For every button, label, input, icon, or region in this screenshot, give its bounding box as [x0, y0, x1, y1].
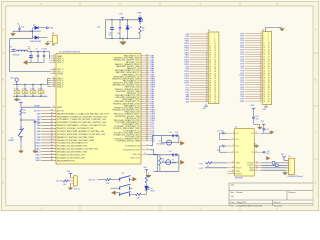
svg-text:33: 33 — [209, 71, 211, 73]
U1 left pin (DA7) — [37, 133, 106, 136]
svg-text:14: 14 — [268, 47, 270, 49]
svg-text:C6 104: C6 104 — [22, 88, 27, 90]
svg-text:PC6/SPI1_MISO/TIM8_BKIN/ADC12_: PC6/SPI1_MISO/TIM8_BKIN/ADC12_IN6/TIM3_C… — [57, 130, 105, 133]
JP1 pin 3 (PE10) — [185, 37, 216, 40]
U1 right pin 37 (PC4) — [124, 129, 156, 132]
JP1 pin 9 (PB10) — [185, 51, 217, 54]
U2 left pin 1 (C1+) — [227, 132, 239, 135]
resistor R3 1M — [159, 155, 165, 172]
JP2 pin 8 (PE7) — [240, 49, 269, 52]
svg-text:DA12: DA12 — [36, 148, 42, 151]
U1 left pin (DA15) — [36, 156, 86, 159]
JP2 pin 26 (PG6) — [240, 90, 269, 93]
svg-text:39: 39 — [209, 78, 211, 80]
svg-text:19: 19 — [209, 55, 211, 57]
svg-text:25: 25 — [206, 89, 208, 91]
svg-text:8: 8 — [256, 169, 257, 171]
wire decoupling top rail — [13, 84, 47, 85]
svg-text:16: 16 — [53, 72, 55, 74]
svg-text:55: 55 — [263, 96, 265, 98]
svg-text:40: 40 — [268, 77, 270, 79]
svg-text:17: 17 — [260, 69, 262, 71]
svg-text:25: 25 — [260, 88, 262, 90]
svg-text:58: 58 — [268, 98, 270, 100]
U1 left power pin (VSS_1) — [50, 85, 64, 88]
offsheet arrow at C20 — [266, 152, 270, 160]
svg-text:43: 43 — [51, 150, 53, 152]
svg-text:16: 16 — [206, 68, 208, 70]
svg-text:RESET: RESET — [8, 140, 15, 142]
ground crystal circuit — [146, 173, 151, 178]
svg-text:27: 27 — [263, 63, 265, 65]
JP2 pin 1 (PE0) — [240, 32, 268, 35]
svg-text:36: 36 — [51, 130, 53, 132]
svg-text:V+: V+ — [251, 133, 253, 135]
svg-text:3V3: 3V3 — [186, 101, 189, 103]
U2 left pin 12 (R1OUT) — [227, 167, 242, 170]
capacitor C2 — [35, 49, 39, 63]
svg-text:BOOT0: BOOT0 — [89, 179, 95, 181]
U1 left power pin (VBAT) — [50, 55, 63, 58]
svg-text:46: 46 — [268, 84, 270, 86]
svg-text:32: 32 — [214, 69, 216, 71]
JP2 designator — [262, 30, 265, 32]
svg-text:C12: C12 — [169, 132, 172, 134]
svg-text:10: 10 — [232, 170, 234, 172]
svg-text:60: 60 — [214, 101, 216, 103]
svg-text:24: 24 — [268, 59, 270, 61]
ground CN3 — [283, 170, 288, 175]
U1 left power pin (VSS_5) — [50, 77, 64, 80]
svg-text:24: 24 — [260, 86, 262, 88]
svg-text:21: 21 — [53, 85, 55, 87]
svg-text:Sheet of: Sheet of — [274, 201, 281, 204]
U1 right pin 21 (PB4) — [115, 96, 155, 99]
svg-text:41: 41 — [263, 80, 265, 82]
U1 right pin 17 (PB0) — [115, 88, 155, 91]
svg-text:C1-: C1- — [236, 139, 239, 141]
svg-text:21: 21 — [209, 57, 211, 59]
U1 right pin 23 (PB6) — [114, 100, 155, 103]
svg-text:104: 104 — [40, 92, 43, 94]
connector CN3 body — [289, 158, 295, 174]
svg-text:DA15: DA15 — [36, 156, 42, 159]
JP2 pin 10 (PF1) — [241, 53, 270, 56]
JP1 pin 4 (PE11) — [185, 40, 216, 43]
svg-text:22: 22 — [268, 57, 270, 59]
svg-text:36: 36 — [214, 73, 216, 75]
JP2 pin 18 (PF9) — [241, 72, 270, 75]
svg-text:13: 13 — [209, 48, 211, 50]
svg-text:3V3: 3V3 — [18, 100, 21, 102]
svg-text:40: 40 — [214, 78, 216, 80]
svg-text:14: 14 — [206, 63, 208, 65]
svg-text:19: 19 — [260, 74, 262, 76]
JP1 pin 1 (PE8) — [186, 33, 216, 36]
svg-text:35: 35 — [263, 73, 265, 75]
svg-text:58: 58 — [214, 99, 216, 101]
U1 right pin 32 (PB15) — [114, 119, 156, 122]
svg-text:31: 31 — [51, 115, 53, 117]
svg-text:2: 2 — [256, 132, 257, 134]
svg-text:9: 9 — [147, 148, 148, 150]
svg-text:3V3: 3V3 — [67, 171, 70, 173]
wire input node — [13, 31, 33, 39]
svg-text:60: 60 — [268, 101, 270, 103]
svg-text:File:: File: — [230, 206, 234, 208]
svg-text:PB9/ADC12_IN9/TIM3_CH4/TIM8_CH: PB9/ADC12_IN9/TIM3_CH4/TIM8_CH3N — [57, 139, 94, 142]
U1 right pin 25 (PB8) — [124, 104, 155, 107]
svg-text:22: 22 — [206, 82, 208, 84]
offsheet arrow S3 left — [111, 191, 119, 195]
svg-text:BOOT0: BOOT0 — [57, 111, 65, 113]
U1 right pin 31 (PB14) — [126, 117, 157, 120]
capacitor C9 104 reset — [34, 120, 40, 150]
U1 left pin (BOOT0) — [34, 110, 65, 113]
svg-text:D:\ELADR\ICKAMP-STM32.ddb: D:\ELADR\ICKAMP-STM32.ddb — [236, 205, 262, 208]
U2 right pin 13 (R1IN) — [249, 167, 261, 170]
svg-text:8: 8 — [268, 40, 269, 42]
svg-text:PB1/USART2_RTS/ADC123_IN1/TIM5: PB1/USART2_RTS/ADC123_IN1/TIM5_CH2/TIM2_… — [57, 115, 108, 118]
svg-text:24: 24 — [206, 86, 208, 88]
svg-text:3V3: 3V3 — [261, 121, 264, 123]
U1 right pin 6 (PA5) — [116, 65, 155, 68]
svg-text:12: 12 — [214, 45, 216, 47]
U1 right pin 34 (PC1) — [122, 123, 155, 126]
CN3 designator — [288, 156, 290, 158]
U2 left pin 10 (T2IN) — [227, 170, 240, 173]
U1 right pin 2 (PA1) — [114, 57, 155, 60]
capacitor C1 — [17, 23, 24, 31]
svg-text:C8 104: C8 104 — [38, 88, 43, 90]
U1 left pin (DA10) — [36, 142, 89, 145]
svg-text:34: 34 — [51, 124, 53, 126]
svg-text:14: 14 — [260, 62, 262, 64]
svg-text:3V3: 3V3 — [143, 167, 146, 169]
svg-text:C18: C18 — [217, 150, 220, 152]
ground C16 — [251, 144, 259, 148]
svg-text:32.768KHz: 32.768KHz — [157, 144, 166, 146]
svg-text:104: 104 — [16, 92, 19, 94]
svg-text:18: 18 — [268, 52, 270, 54]
JP2 pin 20 (PG0) — [240, 76, 269, 79]
JP1 pin 30 (3V3) — [186, 100, 216, 103]
svg-text:+3V3: +3V3 — [202, 108, 206, 110]
svg-text:PC15/OSC32_OUT: PC15/OSC32_OUT — [123, 150, 140, 152]
svg-text:28: 28 — [268, 63, 270, 65]
svg-text:57: 57 — [209, 99, 211, 101]
U1 right pin 9 (PA8) — [116, 71, 155, 74]
svg-text:30: 30 — [214, 66, 216, 68]
wire VDDA to U1 pins — [48, 52, 51, 63]
U2 right pin 2 (V+) — [251, 132, 261, 135]
connector J3 boot select — [70, 176, 79, 191]
U1 left pin (DA0) — [37, 112, 109, 115]
svg-text:P1: P1 — [288, 156, 290, 158]
svg-text:13: 13 — [53, 61, 55, 63]
wire LED circuit loop — [106, 19, 141, 39]
power port at J3 pin1 — [67, 171, 72, 178]
JP1 pin 2 (PE9) — [186, 35, 216, 38]
svg-text:32: 32 — [268, 68, 270, 70]
U1 right pin (PC15-OSC32_OUT) — [123, 148, 150, 151]
JP1 pin 19 (PD12) — [184, 75, 216, 78]
svg-text:104: 104 — [117, 33, 120, 35]
svg-text:49: 49 — [209, 90, 211, 92]
microcontroller U1 STM32F103VET6 body — [56, 54, 141, 165]
svg-text:PD15/ADC12_IN15/TIM4_CH4: PD15/ADC12_IN15/TIM4_CH4 — [57, 156, 85, 159]
JP2 pin 14 (PF5) — [241, 62, 270, 65]
svg-text:T1IN: T1IN — [236, 163, 241, 165]
JP1 pin 17 (PD10) — [184, 70, 216, 73]
JP1 pin 23 (PC6) — [186, 84, 217, 87]
U1 left pin (DA3) — [37, 121, 107, 124]
svg-text:C2+: C2+ — [236, 146, 239, 148]
wire 3V3 to U1 VDD pins — [47, 78, 50, 86]
resistor R6 10K pulldown — [136, 193, 141, 199]
ground near V+ cap — [264, 131, 274, 134]
svg-text:104: 104 — [37, 123, 40, 125]
svg-text:RX2: RX2 — [199, 168, 203, 170]
U1 left pin (DA8) — [37, 136, 95, 139]
svg-text:C: C — [315, 132, 317, 135]
svg-text:5-Aug-2009: 5-Aug-2009 — [236, 201, 245, 204]
JP2 pin 2 (PE1) — [240, 35, 268, 38]
U1 right pin 11 (PA10) — [113, 75, 156, 78]
svg-text:44: 44 — [214, 83, 216, 85]
CN3 pin 5 — [285, 170, 290, 172]
JP2 pin 24 (PG4) — [240, 86, 269, 89]
JP1 pin 24 (PC7) — [186, 86, 217, 89]
svg-text:OSC_IN: OSC_IN — [133, 154, 141, 156]
U1 left power pin (VSS_2) — [50, 83, 64, 86]
svg-text:26: 26 — [260, 90, 262, 92]
svg-text:26: 26 — [214, 62, 216, 64]
svg-text:11: 11 — [206, 56, 208, 58]
svg-text:20: 20 — [268, 54, 270, 56]
svg-text:56: 56 — [214, 97, 216, 99]
svg-text:5: 5 — [233, 151, 234, 153]
svg-text:21: 21 — [260, 79, 262, 81]
U1 right pin 33 (PC0) — [115, 121, 155, 124]
power port +3V3 below JP1 — [190, 102, 208, 111]
net label +5V — [97, 27, 101, 29]
svg-text:8: 8 — [147, 144, 148, 146]
svg-text:42: 42 — [214, 80, 216, 82]
CN3 label text — [287, 176, 303, 178]
capacitor C14 on Y1 — [169, 151, 174, 156]
svg-text:52: 52 — [214, 92, 216, 94]
svg-text:38: 38 — [268, 75, 270, 77]
svg-text:26: 26 — [268, 61, 270, 63]
svg-text:16: 16 — [214, 50, 216, 52]
svg-text:56: 56 — [268, 96, 270, 98]
svg-text:D: D — [315, 182, 317, 185]
wire VDDA top rail — [27, 51, 49, 52]
svg-text:+3V3: +3V3 — [10, 77, 14, 79]
svg-text:54: 54 — [268, 94, 270, 96]
svg-text:10: 10 — [260, 53, 262, 55]
svg-text:38: 38 — [51, 136, 53, 138]
svg-text:+3V3: +3V3 — [262, 109, 266, 111]
U1 left pin (DA2) — [37, 118, 107, 121]
U1 right pin 14 (PA13) — [113, 81, 156, 84]
svg-text:10: 10 — [268, 43, 270, 45]
offsheet arrow OSC32 — [180, 141, 184, 145]
svg-text:C3 104: C3 104 — [41, 49, 47, 51]
svg-text:C1+: C1+ — [236, 133, 239, 135]
CN3 pin 3 — [285, 165, 290, 167]
U1 right pin 8 (PA7) — [115, 69, 155, 72]
svg-text:4: 4 — [233, 145, 234, 147]
title block text — [230, 184, 295, 208]
U1 right pin 38 (PC5) — [114, 131, 155, 134]
power port +3V3 decoupling — [10, 77, 19, 84]
svg-text:21: 21 — [263, 57, 265, 59]
net label RX2 wire — [199, 168, 227, 170]
svg-text:46: 46 — [51, 159, 53, 161]
JP1 pin 5 (PE12) — [185, 42, 217, 45]
wire from JP2 top to ground — [266, 28, 283, 32]
svg-text:PC9/FSMC_D5/I2C1_SDA: PC9/FSMC_D5/I2C1_SDA — [116, 140, 140, 143]
U1 left power pin (VDDA) — [50, 72, 63, 75]
U1 right pin 12 (PA11) — [112, 77, 156, 80]
U1 left pin (DA1) — [37, 115, 108, 118]
resistor R5 10K — [98, 178, 120, 185]
pushbutton S1 RESET — [8, 120, 23, 150]
svg-text:4: 4 — [268, 36, 269, 38]
svg-text:11: 11 — [209, 45, 211, 47]
svg-text:23: 23 — [260, 83, 262, 85]
U1 left pin (DA6) — [37, 130, 106, 133]
svg-text:C1: C1 — [17, 23, 19, 25]
svg-text:FB 600R: FB 600R — [13, 55, 21, 57]
svg-text:R1OUT: R1OUT — [236, 168, 243, 170]
svg-text:12: 12 — [206, 58, 208, 60]
U1 left pin (DA13) — [36, 150, 88, 153]
U1 left pin (DA12) — [36, 147, 99, 150]
svg-text:C13: C13 — [175, 132, 178, 134]
battery connector BT1 — [47, 33, 57, 46]
svg-text:37: 37 — [263, 75, 265, 77]
JP1 pin 29 (GND) — [185, 98, 216, 101]
svg-text:PB5/SPI1_SCK/DAC_OUT2/ADC12_IN: PB5/SPI1_SCK/DAC_OUT2/ADC12_IN5 — [57, 127, 94, 130]
ground C9 — [33, 150, 38, 153]
svg-text:13: 13 — [256, 167, 258, 169]
svg-text:RESET: RESET — [34, 105, 41, 107]
svg-text:11: 11 — [263, 45, 265, 47]
U1 left pin (DA11) — [36, 145, 88, 148]
svg-text:22: 22 — [260, 81, 262, 83]
JP1 pin 10 (PB11) — [185, 54, 217, 57]
svg-text:22: 22 — [214, 57, 216, 59]
svg-text:31: 31 — [209, 69, 211, 71]
U1 right pin (OSC_OUT) — [130, 158, 140, 160]
svg-text:10: 10 — [214, 43, 216, 45]
U1 right pin 36 (PC3) — [113, 127, 155, 130]
svg-text:27: 27 — [206, 93, 208, 95]
svg-text:6: 6 — [268, 38, 269, 40]
svg-text:104: 104 — [24, 92, 27, 94]
U1 right pin 42 (PC9) — [116, 140, 155, 143]
svg-text:14: 14 — [53, 106, 55, 108]
U2 left pin 9 (R2OUT) — [227, 173, 242, 176]
net label BOOT0 key — [89, 179, 95, 181]
JP1 pin 28 (PA9) — [186, 96, 216, 99]
svg-text:1: 1 — [233, 132, 234, 134]
JP1 pin 8 (PE15) — [185, 49, 217, 52]
JP2 pin 30 (GND) — [240, 100, 270, 103]
pushbutton S2 KEY — [119, 173, 132, 181]
svg-text:50: 50 — [268, 89, 270, 91]
svg-text:12: 12 — [144, 153, 146, 155]
U1 right pin 39 (PC6) — [113, 133, 155, 136]
svg-text:25: 25 — [263, 61, 265, 63]
JP2 pin 6 (PE5) — [240, 44, 269, 47]
svg-text:DA14: DA14 — [36, 153, 42, 156]
U1 right pin 10 (PA9) — [122, 73, 154, 76]
svg-text:51: 51 — [263, 91, 265, 93]
U1 right pin 15 (PA14) — [112, 84, 156, 87]
svg-text:BOOT0: BOOT0 — [56, 181, 62, 183]
JP1 pin 26 (PC9) — [186, 91, 217, 94]
U2 designator — [235, 127, 238, 129]
svg-text:Drawn By:: Drawn By: — [274, 206, 283, 208]
U2 left pin 3 (C1-) — [227, 138, 239, 141]
svg-text:PA12/ADC123_IN12/USART3_CK/TIM: PA12/ADC123_IN12/USART3_CK/TIM8_CH4 — [57, 148, 99, 151]
svg-text:C19: C19 — [266, 129, 269, 131]
U1 right pin 27 (PB10) — [112, 108, 156, 111]
svg-text:50: 50 — [214, 90, 216, 92]
svg-text:D: D — [2, 182, 4, 185]
ground C15 — [254, 124, 263, 129]
svg-text:19: 19 — [206, 75, 208, 77]
pushbutton S4 — [119, 188, 136, 196]
svg-text:C2: C2 — [35, 49, 37, 51]
resistor R7 LED1 — [145, 172, 148, 183]
svg-text:PA0/WKUP/USART2_CTS/ADC123_IN0: PA0/WKUP/USART2_CTS/ADC123_IN0/TIM2_CH1_… — [57, 112, 109, 115]
svg-text:29: 29 — [263, 66, 265, 68]
svg-text:30: 30 — [268, 66, 270, 68]
svg-text:12: 12 — [260, 58, 262, 60]
svg-text:44: 44 — [51, 153, 53, 155]
offsheet arrow S2 — [133, 177, 137, 181]
svg-text:TX2: TX2 — [199, 163, 202, 165]
svg-text:104: 104 — [32, 92, 35, 94]
U1 right pin 5 (PA4) — [115, 63, 155, 66]
svg-text:18: 18 — [214, 52, 216, 54]
svg-text:57: 57 — [263, 98, 265, 100]
ground LED circuit — [120, 39, 127, 45]
U1 left pin (DA14) — [36, 153, 86, 156]
JP1 pin 20 (PD13) — [184, 77, 216, 80]
U1 left power pin (VDD_1) — [50, 70, 64, 73]
svg-text:13: 13 — [260, 60, 262, 62]
svg-text:33: 33 — [51, 121, 53, 123]
U1 right pin 28 (PB11) — [125, 110, 156, 113]
svg-text:14: 14 — [256, 162, 258, 164]
ground at JP2 top — [280, 28, 285, 31]
svg-text:37: 37 — [51, 133, 53, 135]
svg-text:18: 18 — [206, 72, 208, 74]
wire R1IN to CN3 row3 — [261, 167, 288, 169]
svg-text:3: 3 — [233, 138, 234, 140]
JP1 pin 15 (PD8) — [186, 65, 217, 68]
svg-text:17: 17 — [209, 52, 211, 54]
svg-text:34: 34 — [268, 70, 270, 72]
JP2 pin 9 (PF0) — [241, 51, 270, 54]
wire T1OUT to CN3 row1 — [261, 162, 288, 164]
